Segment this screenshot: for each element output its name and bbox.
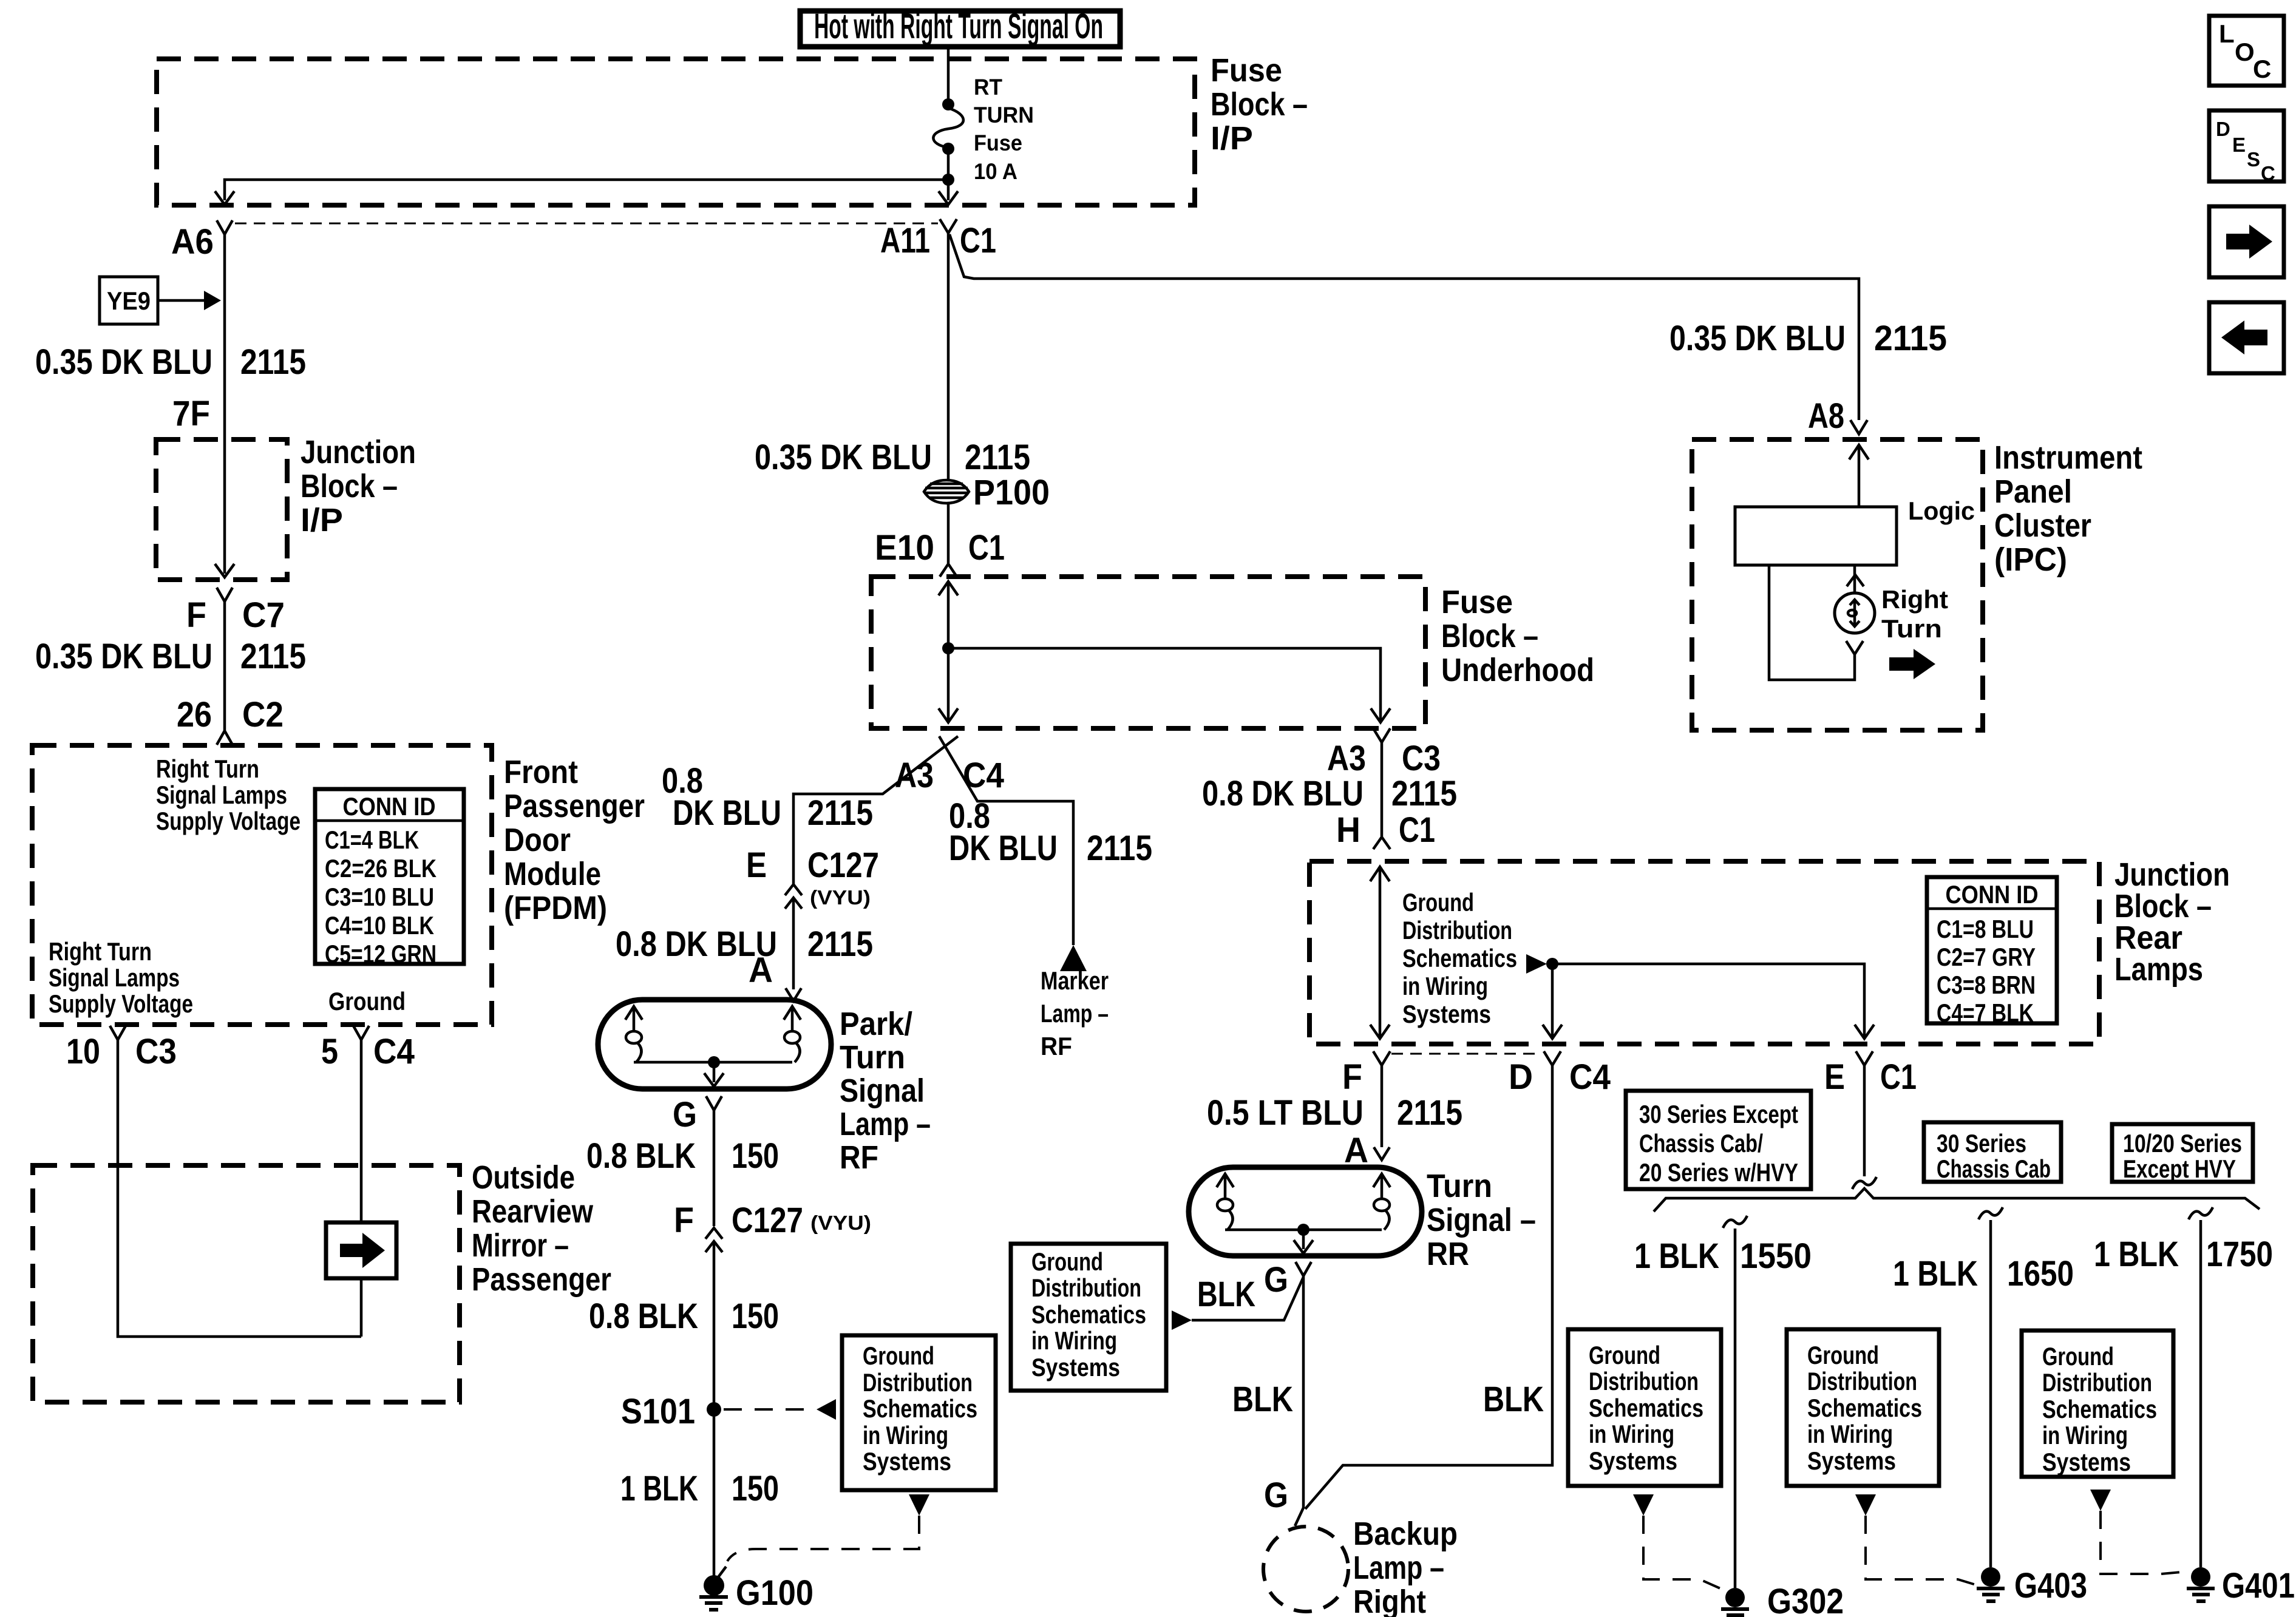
svg-text:C1: C1 (960, 221, 996, 260)
svg-text:Fuse: Fuse (1441, 584, 1513, 620)
svg-text:10 A: 10 A (974, 159, 1017, 184)
svg-text:1 BLK: 1 BLK (620, 1469, 698, 1508)
svg-text:2115: 2115 (807, 924, 873, 964)
svg-text:1750: 1750 (2206, 1235, 2273, 1274)
label Turn Signal - RR (1427, 1168, 1536, 1272)
svg-text:2115: 2115 (1397, 1093, 1462, 1133)
svg-text:10: 10 (66, 1032, 100, 1071)
wire from title box to fuse (947, 48, 950, 101)
node inside junction block (1546, 958, 1558, 970)
FPDM pin label: Right Turn Signal Lamps Supply Voltage (top) (156, 754, 301, 835)
wire into IPC with up arrow (1849, 445, 1869, 507)
svg-text:(VYU): (VYU) (810, 886, 871, 909)
svg-text:1650: 1650 (2007, 1254, 2074, 1293)
svg-text:5: 5 (321, 1032, 338, 1071)
wire label 0.35 DK BLU 2115 (35, 342, 306, 382)
svg-text:C7: C7 (242, 595, 285, 635)
connector D C4 (1509, 1051, 1611, 1097)
svg-text:1 BLK: 1 BLK (2094, 1235, 2179, 1274)
svg-text:Ground: Ground (863, 1341, 934, 1370)
svg-text:150: 150 (732, 1136, 779, 1176)
label Junction Block - Rear Lamps (2114, 856, 2230, 988)
series selection bus (1654, 1188, 2260, 1212)
reference triangle down below box 1 (909, 1494, 929, 1516)
svg-text:Distribution: Distribution (863, 1368, 973, 1397)
svg-text:Ground: Ground (2042, 1342, 2114, 1371)
svg-text:Junction: Junction (301, 434, 416, 470)
svg-text:Schematics: Schematics (1402, 944, 1517, 972)
svg-text:Schematics: Schematics (2042, 1395, 2157, 1423)
svg-text:BLK: BLK (1232, 1380, 1293, 1419)
svg-text:0.35 DK BLU: 0.35 DK BLU (35, 637, 212, 676)
connector F C7 (186, 588, 285, 635)
svg-text:S: S (2247, 148, 2260, 171)
svg-text:C1=8 BLU: C1=8 BLU (1937, 915, 2034, 943)
svg-text:0.8 BLK: 0.8 BLK (586, 1136, 696, 1176)
YE9 box with arrow (100, 277, 221, 324)
turn signal lamp RR (1189, 1167, 1422, 1256)
svg-text:Systems: Systems (2042, 1448, 2131, 1476)
label Front Passenger Door Module (FPDM) (504, 754, 645, 926)
svg-text:30 Series Except: 30 Series Except (1639, 1100, 1798, 1128)
svg-text:Supply Voltage: Supply Voltage (49, 989, 193, 1018)
svg-text:Panel: Panel (1994, 473, 2072, 510)
svg-text:0.8 BLK: 0.8 BLK (589, 1297, 698, 1336)
wire label 0.35 DK BLU 2115 (IPC) (1669, 319, 1947, 358)
dashed reference to G401 (2101, 1511, 2181, 1574)
reference triangle below box 5 (2090, 1490, 2111, 1511)
svg-text:Lamp –: Lamp – (1041, 999, 1109, 1028)
reference triangle below box 4 (1855, 1494, 1876, 1516)
svg-text:Signal: Signal (840, 1073, 925, 1109)
label Fuse Block - Underhood (1441, 584, 1594, 688)
svg-text:Block –: Block – (2114, 888, 2212, 924)
svg-text:2115: 2115 (1391, 774, 1457, 813)
svg-text:Ground: Ground (1807, 1341, 1879, 1369)
svg-text:C4: C4 (373, 1032, 415, 1071)
svg-text:0.5 LT BLU: 0.5 LT BLU (1207, 1093, 1364, 1133)
svg-text:A3: A3 (895, 756, 934, 795)
connector 26 C2 (177, 695, 284, 745)
svg-text:Instrument: Instrument (1994, 439, 2142, 476)
svg-text:Block –: Block – (1441, 618, 1538, 654)
svg-text:C1: C1 (1399, 810, 1435, 850)
wires inside fuse block underhood (939, 581, 958, 648)
wire fuse to junction, arrow into A11 (947, 149, 950, 180)
svg-text:Underhood: Underhood (1441, 652, 1594, 688)
connector A11 C1 (880, 219, 996, 260)
connector A8 (1808, 396, 1867, 436)
svg-text:G302: G302 (1767, 1582, 1844, 1617)
svg-text:E: E (746, 846, 767, 885)
svg-text:Backup: Backup (1353, 1516, 1458, 1552)
svg-text:F: F (186, 595, 206, 635)
svg-text:S101: S101 (621, 1392, 695, 1431)
wire G down (713, 1110, 716, 1226)
label Park/ Turn Signal Lamp - RF (840, 1006, 931, 1176)
wire label 0.8 DK BLU 2115 (1202, 774, 1457, 813)
svg-text:E10: E10 (875, 528, 934, 568)
thin dashed connector line F-D (1391, 1053, 1542, 1055)
svg-text:(VYU): (VYU) (810, 1212, 871, 1234)
svg-text:2115: 2115 (807, 793, 873, 833)
svg-text:Logic: Logic (1908, 497, 1975, 525)
marker lamp RF terminal triangle (1060, 945, 1087, 971)
label Backup Lamp - Right (1353, 1516, 1458, 1617)
outside rearview mirror dashed box (33, 1165, 460, 1402)
connector E C127 (VYU) (746, 846, 879, 909)
svg-text:Schematics: Schematics (1031, 1300, 1146, 1329)
ground G100 (699, 1567, 813, 1613)
svg-text:(IPC): (IPC) (1994, 541, 2067, 578)
wire F to RR lamp (1381, 1065, 1384, 1147)
svg-text:Ground: Ground (1402, 888, 1474, 917)
svg-text:G: G (673, 1095, 697, 1134)
label Marker Lamp - RF (1041, 966, 1109, 1060)
wire label 1 BLK 1650 (1893, 1254, 2074, 1293)
svg-text:C1=4 BLK: C1=4 BLK (325, 825, 419, 854)
wire label 0.5 LT BLU 2115 (1207, 1093, 1462, 1133)
svg-text:0.35 DK BLU: 0.35 DK BLU (35, 342, 212, 382)
svg-text:Systems: Systems (1402, 1000, 1491, 1028)
svg-text:26: 26 (177, 695, 212, 734)
FPDM dashed box (32, 745, 492, 1025)
fuse block I/P dashed box (157, 59, 1195, 205)
svg-text:Fuse: Fuse (974, 131, 1022, 155)
svg-text:in Wiring: in Wiring (1402, 972, 1488, 1000)
connector E C1 (1824, 1051, 1917, 1097)
wire through junction block (F leg) with arrows (1370, 867, 1390, 1039)
svg-text:C: C (2253, 55, 2271, 83)
svg-text:Block –: Block – (1211, 86, 1308, 123)
right arrow corner box (2209, 206, 2284, 277)
wire below arrow box (360, 1278, 363, 1337)
svg-text:Signal Lamps: Signal Lamps (49, 963, 180, 992)
wire P100 to E10 (947, 504, 950, 563)
IPC dashed box (1692, 439, 1983, 730)
reference triangle right into junction block (1526, 954, 1547, 974)
svg-text:C1: C1 (968, 528, 1005, 568)
svg-text:Right: Right (1881, 585, 1948, 614)
dashed reference to G302 (1643, 1516, 1722, 1589)
connector A6 (171, 220, 233, 262)
svg-text:C2=7 GRY: C2=7 GRY (1937, 943, 2036, 971)
wire A3/C3 down to H (1381, 742, 1384, 836)
connector H C1 (1336, 810, 1435, 850)
svg-text:Turn: Turn (1427, 1168, 1492, 1204)
svg-text:Ground: Ground (328, 987, 406, 1015)
svg-text:2115: 2115 (1087, 829, 1152, 868)
svg-text:C5=12 GRN: C5=12 GRN (325, 940, 436, 968)
svg-text:10/20 Series: 10/20 Series (2123, 1129, 2242, 1158)
svg-text:CONN ID: CONN ID (343, 792, 436, 821)
wire label 1 BLK 150 (620, 1469, 779, 1508)
left arrow corner box (2209, 302, 2284, 373)
svg-text:in Wiring: in Wiring (863, 1421, 948, 1449)
svg-text:G: G (1264, 1260, 1288, 1300)
drop wire to G403 with squiggle (1978, 1207, 2003, 1567)
wire label 0.8 DK BLU 2115 (park branch) (662, 761, 873, 833)
svg-text:2115: 2115 (240, 342, 306, 382)
box 30 Series Except Chassis Cab/ 20 Series w/HVY (1626, 1091, 1811, 1189)
svg-text:2115: 2115 (965, 438, 1030, 477)
svg-text:Lamps: Lamps (2114, 951, 2203, 988)
reference triangle and BLK wire to RR lamp ground (1172, 1310, 1192, 1330)
svg-text:Module: Module (504, 856, 601, 892)
svg-text:C4: C4 (1569, 1057, 1611, 1097)
svg-text:Right Turn: Right Turn (156, 754, 259, 783)
dashed reference to G403 (1866, 1516, 1978, 1585)
wire D/C4 to backup lamp (1305, 1065, 1552, 1509)
svg-text:G: G (1264, 1476, 1288, 1515)
svg-text:Park/: Park/ (840, 1006, 912, 1042)
svg-text:0.8 DK BLU: 0.8 DK BLU (1202, 774, 1364, 813)
wire label 0.8 BLK 150 (586, 1136, 779, 1176)
svg-text:Supply Voltage: Supply Voltage (156, 807, 301, 835)
svg-text:Distribution: Distribution (1031, 1273, 1141, 1302)
svg-text:I/P: I/P (1211, 120, 1253, 157)
svg-text:1 BLK: 1 BLK (1634, 1236, 1719, 1276)
svg-text:Turn: Turn (840, 1039, 905, 1076)
wire through junction block with arrow (215, 439, 234, 577)
svg-text:Schematics: Schematics (1807, 1394, 1922, 1422)
svg-text:BLK: BLK (1197, 1275, 1255, 1314)
svg-text:C3: C3 (135, 1032, 177, 1071)
wire label 0.35 DK BLU 2115 (35, 637, 306, 676)
svg-text:C127: C127 (807, 846, 879, 885)
wire junction left to A6 arrow (215, 180, 948, 205)
svg-text:F: F (674, 1201, 694, 1240)
svg-text:C4=10 BLK: C4=10 BLK (325, 911, 434, 940)
junction block I/P dashed box (156, 439, 287, 580)
svg-text:A: A (749, 951, 773, 990)
svg-text:Rear: Rear (2114, 920, 2182, 956)
svg-text:Turn: Turn (1881, 614, 1942, 643)
svg-text:F: F (1342, 1057, 1362, 1097)
svg-text:A: A (1344, 1131, 1368, 1170)
wire C127 to lamp (792, 898, 795, 989)
svg-text:Ground: Ground (1589, 1341, 1660, 1369)
dashed reference S101 to box (724, 1408, 813, 1411)
ground distribution box 2 (1011, 1244, 1166, 1391)
svg-text:A6: A6 (171, 222, 214, 262)
svg-text:Right: Right (1353, 1584, 1426, 1617)
svg-text:in Wiring: in Wiring (1807, 1420, 1893, 1448)
ground G401 (2187, 1566, 2295, 1605)
svg-text:Mirror –: Mirror – (472, 1227, 569, 1264)
title box: Hot with Right Turn Signal On (800, 7, 1120, 47)
svg-text:7F: 7F (172, 394, 210, 433)
wire loop logic to indicator (1769, 565, 1863, 680)
turn arrow solid inside IPC (1889, 649, 1935, 679)
svg-text:A11: A11 (880, 221, 930, 260)
svg-text:Lamp –: Lamp – (1353, 1550, 1444, 1586)
svg-text:C4=7 BLK: C4=7 BLK (1937, 998, 2034, 1027)
wire 10/C3 down into mirror (118, 1040, 361, 1337)
svg-text:RF: RF (1041, 1032, 1072, 1060)
label Instrument Panel Cluster (IPC) (1994, 439, 2142, 578)
junction block rear lamps dashed box (1309, 861, 2099, 1044)
connector F below junction block (1342, 1051, 1390, 1097)
svg-text:RT: RT (974, 75, 1002, 100)
wire A11 down to P100 (947, 233, 950, 479)
svg-text:Fuse: Fuse (1211, 52, 1282, 89)
ground distribution box 4 (1787, 1329, 1939, 1486)
svg-text:C3: C3 (1402, 739, 1441, 778)
svg-text:C1: C1 (1880, 1057, 1917, 1097)
svg-text:Right Turn: Right Turn (49, 937, 152, 966)
ground G302 (1721, 1582, 1844, 1617)
svg-text:G100: G100 (736, 1573, 813, 1613)
svg-text:G403: G403 (2014, 1566, 2087, 1605)
svg-text:RF: RF (840, 1139, 878, 1176)
svg-text:H: H (1336, 810, 1360, 850)
fuse RT TURN 10 A (933, 75, 1034, 184)
CONN ID table FPDM (315, 789, 464, 968)
svg-text:30 Series: 30 Series (1937, 1129, 2026, 1158)
svg-text:Signal Lamps: Signal Lamps (156, 781, 287, 809)
svg-text:Distribution: Distribution (1807, 1367, 1917, 1395)
backup lamp right (dashed circle) (1263, 1476, 1348, 1612)
svg-text:2115: 2115 (1874, 319, 1947, 358)
wire label 1 BLK 1750 (2094, 1235, 2273, 1274)
svg-text:DK BLU: DK BLU (673, 793, 781, 833)
svg-text:E: E (2232, 134, 2246, 156)
svg-text:E: E (1824, 1057, 1845, 1097)
svg-text:P100: P100 (973, 473, 1050, 512)
svg-text:Passenger: Passenger (472, 1261, 611, 1298)
svg-text:0.35 DK BLU: 0.35 DK BLU (755, 438, 932, 477)
drop wire to G302 with squiggle (1723, 1216, 1747, 1588)
svg-text:(FPDM): (FPDM) (504, 890, 607, 926)
svg-text:in Wiring: in Wiring (1589, 1420, 1674, 1448)
ground G403 (1977, 1566, 2087, 1605)
connector 5 C4 (321, 1026, 415, 1071)
svg-text:RR: RR (1427, 1236, 1469, 1272)
pin A (1344, 1131, 1390, 1170)
connector F C127 (VYU) (674, 1201, 871, 1252)
ground distribution box 1 (842, 1335, 996, 1490)
connector G of RR lamp (1264, 1260, 1311, 1300)
svg-text:C2: C2 (242, 695, 284, 734)
svg-text:C3=10 BLU: C3=10 BLU (325, 883, 434, 911)
svg-text:in Wiring: in Wiring (2042, 1421, 2128, 1449)
svg-text:Ground: Ground (1031, 1247, 1103, 1276)
svg-text:Front: Front (504, 754, 578, 790)
svg-text:Systems: Systems (1589, 1446, 1677, 1475)
svg-text:in Wiring: in Wiring (1031, 1326, 1117, 1355)
svg-text:Block –: Block – (301, 468, 398, 504)
mirror turn arrow box (326, 1222, 396, 1278)
right turn indicator lamp (1835, 565, 1948, 643)
reference triangle left (817, 1399, 836, 1420)
svg-text:Outside: Outside (472, 1159, 575, 1196)
FPDM pin label: Right Turn Signal Lamps Supply Voltage (bottom) (49, 937, 193, 1018)
svg-text:A3: A3 (1327, 739, 1366, 778)
label Outside Rearview Mirror - Passenger (472, 1159, 611, 1298)
svg-text:L: L (2219, 19, 2235, 48)
wire C127 to S101 to G100 (713, 1241, 716, 1576)
svg-text:CONN ID: CONN ID (1946, 880, 2039, 909)
svg-text:150: 150 (732, 1469, 779, 1508)
wire label 0.8 DK BLU 2115 (marker branch) (949, 796, 1152, 868)
svg-text:I/P: I/P (301, 502, 343, 538)
wire 5/C4 down to mirror arrow box (360, 1040, 363, 1222)
svg-text:1 BLK: 1 BLK (1893, 1254, 1978, 1293)
wire label 0.8 BLK 150 (589, 1297, 779, 1336)
svg-text:Signal –: Signal – (1427, 1202, 1536, 1238)
connector A3 C3 (1327, 728, 1441, 778)
svg-text:20 Series w/HVY: 20 Series w/HVY (1639, 1158, 1798, 1187)
svg-text:O: O (2235, 38, 2255, 66)
svg-text:0.35 DK BLU: 0.35 DK BLU (1669, 319, 1846, 358)
connector E10 C1 (875, 528, 1005, 577)
svg-text:YE9: YE9 (107, 286, 151, 315)
thin dashed connector line A6-A11 (235, 223, 938, 225)
svg-text:Passenger: Passenger (504, 788, 645, 824)
reference triangle below box 3 (1633, 1494, 1654, 1516)
svg-text:C3=8 BRN: C3=8 BRN (1937, 971, 2036, 999)
connector 10 C3 (66, 1026, 177, 1071)
box 10/20 Series Except HVY (2112, 1124, 2253, 1183)
svg-text:C127: C127 (732, 1201, 803, 1240)
pin A (749, 951, 801, 1001)
svg-text:Distribution: Distribution (1402, 916, 1512, 944)
svg-text:TURN: TURN (974, 103, 1034, 127)
drop wire to G401 with squiggle (2189, 1207, 2213, 1567)
wire A6 down (223, 234, 226, 439)
splice S101 (621, 1392, 721, 1431)
svg-text:2115: 2115 (240, 637, 306, 676)
wire G down to backup lamp (1295, 1276, 1303, 1526)
wire A11 to IPC (long horizontal) (949, 234, 1859, 420)
svg-text:A8: A8 (1808, 396, 1844, 436)
dashed reference to G100 (727, 1516, 919, 1561)
wire label 0.8 DK BLU 2115 (616, 924, 873, 964)
svg-text:Cluster: Cluster (1994, 507, 2091, 544)
svg-text:Lamp –: Lamp – (840, 1106, 931, 1142)
svg-text:Distribution: Distribution (2042, 1368, 2152, 1397)
label Fuse Block - I/P (1211, 52, 1308, 157)
logic box (1735, 497, 1975, 565)
svg-text:Systems: Systems (863, 1447, 951, 1476)
ground distribution note inside junction block (1402, 888, 1517, 1028)
svg-text:Systems: Systems (1031, 1353, 1120, 1381)
svg-text:DK BLU: DK BLU (949, 829, 1058, 868)
svg-text:Hot with Right Turn Signal On: Hot with Right Turn Signal On (814, 7, 1103, 46)
svg-text:Except HVY: Except HVY (2123, 1154, 2236, 1183)
svg-text:Marker: Marker (1041, 966, 1109, 995)
LOC corner box (2209, 16, 2284, 86)
svg-text:Distribution: Distribution (1589, 1367, 1699, 1395)
park/turn signal lamp RF (598, 1000, 831, 1089)
svg-text:Chassis Cab: Chassis Cab (1937, 1154, 2051, 1183)
label Junction Block - I/P (301, 434, 416, 538)
fuse block underhood dashed box (871, 577, 1425, 728)
box 30 Series Chassis Cab (1924, 1122, 2061, 1183)
svg-text:D: D (1509, 1057, 1533, 1097)
ground distribution box 3 (1568, 1329, 1721, 1486)
split wire to park lamp and marker lamp (793, 736, 958, 884)
pass-through grommet P100 (924, 473, 1050, 512)
svg-text:C: C (2261, 162, 2275, 185)
svg-text:BLK: BLK (1483, 1380, 1544, 1419)
svg-text:C2=26 BLK: C2=26 BLK (325, 854, 436, 883)
ground distribution box 5 (2022, 1331, 2173, 1477)
svg-text:150: 150 (732, 1297, 779, 1336)
connector A3 C4 (895, 756, 1004, 795)
svg-text:Door: Door (504, 822, 571, 858)
